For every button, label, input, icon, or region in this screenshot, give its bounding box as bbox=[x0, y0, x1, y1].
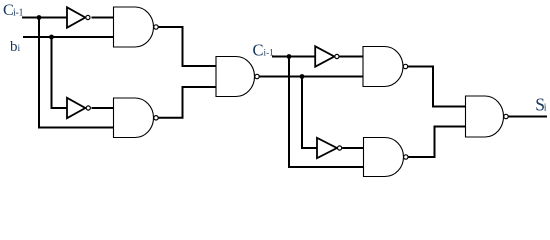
wire: G3 output branch down to inverter U4 input bbox=[302, 77, 317, 149]
wire: Ci-1 branch down to G5 lower input bbox=[289, 57, 364, 168]
junction: bi branch bbox=[49, 35, 54, 40]
wire: Ci-1 second-stage input net bbox=[272, 56, 315, 58]
wire: Ci-1 input net bbox=[22, 17, 67, 19]
NAND gate G6 (output) bbox=[466, 96, 509, 137]
wire: U4 output to G5 upper input bbox=[342, 147, 363, 149]
junction: G3 output branch bbox=[300, 74, 305, 79]
NAND gate G2 (bottom left) bbox=[114, 98, 159, 138]
svg-text:Si: Si bbox=[535, 94, 546, 114]
wire: bi input net bbox=[23, 36, 114, 38]
junction: Ci-1 branch bbox=[37, 15, 42, 20]
wire: U3 output to G4 upper input bbox=[340, 56, 364, 58]
wire: G3 output net to G4 lower input bbox=[259, 76, 363, 78]
wire: G2 output to G3 lower input bbox=[158, 87, 216, 118]
junction: second-stage Ci-1 branch bbox=[287, 54, 292, 59]
wire: U2 output to NAND2 bbox=[92, 107, 114, 109]
wire: U1 output to NAND1 bbox=[92, 17, 114, 19]
inverter U4 (NOT of G3 output) bbox=[317, 138, 342, 158]
NAND gate G3 (middle) bbox=[216, 57, 259, 97]
wire: bi branch down to inverter U2 input bbox=[52, 37, 68, 108]
inverter U1 (NOT Ci-1) bbox=[67, 7, 90, 27]
wire: G4 output to G6 upper input bbox=[408, 67, 466, 107]
wire: Ci-1 branch down to NAND2 lower input bbox=[39, 18, 114, 128]
wire: G5 output to G6 lower input bbox=[408, 127, 466, 158]
NAND gate G5 (bottom right) bbox=[364, 138, 408, 177]
inverter U3 (NOT Ci-1, second stage) bbox=[315, 46, 339, 66]
NAND gate G4 (top right) bbox=[363, 47, 408, 87]
inverter U2 (NOT bi) bbox=[67, 98, 90, 118]
wire: G1 output to G3 upper input bbox=[158, 27, 216, 66]
NAND gate G1 (top left) bbox=[114, 7, 159, 47]
wire: Si output net bbox=[508, 116, 547, 118]
